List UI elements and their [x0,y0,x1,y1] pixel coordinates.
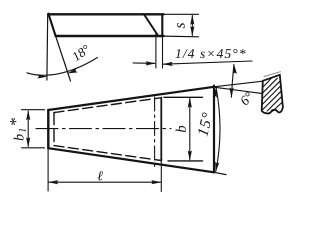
label l [97,171,102,180]
arrowhead chamfer left [146,61,156,65]
arrowhead 6deg down [229,87,233,97]
inner end face solid [160,98,162,161]
wire chamfer 45deg [144,14,158,35]
dimension chamfer 1/4s left tail [133,62,155,65]
dimension b line [189,98,191,159]
arrowhead at vertical line [37,74,47,78]
gib section outline [262,75,283,114]
dimension chamfer right tail [163,61,252,64]
extension line b1 bottom [22,147,45,149]
hidden dashed bottom edge [54,146,161,161]
dimension l line [49,181,161,183]
wire top edge [48,87,214,110]
arrowhead l left [48,180,58,184]
wire bottom edge [56,35,164,37]
dimension arc 15deg [216,88,220,171]
hidden dashed left face [53,113,55,146]
wire nose edge 18deg [48,14,55,36]
label 18deg [71,44,90,61]
dimension s line [191,16,193,36]
axis horizontal dash-dot [36,128,171,130]
arrowhead 6deg up [232,64,237,75]
label 15deg [197,112,213,137]
arrowhead chamfer right [162,62,172,67]
wire nose extension [56,36,71,81]
dimension arc 6deg [231,64,234,97]
wire top edge [48,13,163,15]
arrowhead l right [151,180,161,184]
wire right end face extension down [162,36,164,68]
arrowhead s down [190,26,194,36]
arrowhead b down [188,151,192,161]
extension l right (inner face extended) [160,161,162,192]
extension tick b top [164,96,203,98]
wire bottom edge extension [164,35,199,38]
axis vertical dash-dot [154,97,156,168]
wire right edge [213,86,215,173]
label b1* [10,118,26,140]
dimension b1 line [27,111,29,146]
wire top edge extension [164,13,199,15]
arrowhead b up [188,97,192,107]
gib face faint upper line [264,72,281,77]
gib hatching [262,78,283,112]
label b [176,126,186,132]
arrowhead s up [190,15,194,25]
arrowhead 15 down [214,162,220,173]
wire left edge [47,110,49,148]
wire vertical reference line [46,15,49,81]
arrowhead 15 up [213,87,219,98]
wire right end face [161,14,163,36]
label 1/4 s x 45deg [175,49,245,58]
extension tick b bottom [168,160,203,162]
wire top edge extension right [214,81,263,87]
wire bottom edge [48,148,214,172]
label 6deg [239,91,253,105]
arrowhead at slant line [66,68,77,75]
dimension arc 18deg [27,58,98,76]
hidden dashed top edge [54,98,161,113]
arrowhead b1 up [26,110,30,120]
wire bottom edge extension right [214,172,226,174]
wire left edge extension down [47,148,49,191]
extension line b1 top [22,109,45,111]
wire chamfer extension down [155,32,157,68]
label s [177,23,184,28]
arrowhead b1 down [26,137,30,147]
slot face line 6deg [214,87,262,93]
